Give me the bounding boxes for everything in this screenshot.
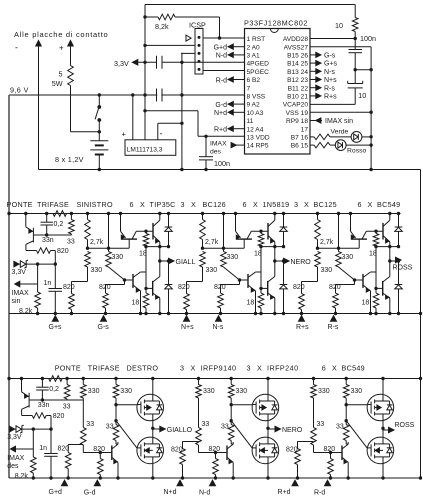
capacitor 100n AVDD (354, 39, 356, 50)
svg-text:Verde: Verde (331, 128, 349, 135)
wire base row (33, 234, 71, 236)
svg-text:5W: 5W (52, 79, 63, 88)
svg-text:820: 820 (171, 447, 183, 454)
svg-text:3: 3 (181, 200, 185, 209)
wire ICSP pin1 row (203, 37, 245, 39)
svg-text:GIALL: GIALL (176, 259, 196, 266)
resistor 820 high input group G destro (67, 445, 69, 453)
wire driver base row (318, 247, 360, 249)
MOSFET low side (152, 428, 154, 437)
svg-text:820: 820 (178, 284, 190, 291)
svg-text:R+s: R+s (296, 324, 309, 331)
transistor pre-driver Q1 (235, 214, 237, 232)
resistor 8,2k (145, 16, 158, 18)
svg-text:IMAX sin: IMAX sin (325, 118, 353, 125)
svg-text:X: X (191, 364, 196, 373)
MOSFET (252, 394, 279, 421)
diode low 1N5819 (283, 261, 285, 285)
svg-text:VSS 19: VSS 19 (286, 110, 309, 117)
transistor pre-driver Q1 (120, 214, 122, 232)
svg-text:B15 26: B15 26 (287, 53, 308, 60)
body diode (153, 443, 160, 445)
arrow input G+d (62, 480, 68, 486)
transistor driver low Q3 (355, 279, 364, 281)
svg-text:330: 330 (120, 388, 132, 395)
svg-text:IMAX: IMAX (12, 290, 29, 297)
left border bus wire (8, 95, 10, 478)
svg-text:NERO: NERO (282, 427, 303, 434)
svg-text:+: + (122, 130, 127, 139)
wire to high gate (346, 404, 367, 406)
regulator output lead (157, 123, 159, 140)
resistor 18 lower (143, 293, 149, 308)
resistor 820 low-side input (239, 280, 241, 285)
wire driver base row (314, 452, 343, 454)
svg-text:N-s: N-s (324, 69, 335, 76)
wire 18/diode row (261, 246, 284, 248)
resistor 2,7k group GIALL (87, 214, 89, 220)
svg-text:Rosso: Rosso (347, 148, 366, 155)
svg-text:AVDD28: AVDD28 (283, 36, 308, 43)
transistor output high TIP35C (382, 223, 384, 240)
svg-text:0,2: 0,2 (54, 221, 64, 228)
svg-text:NERO: NERO (291, 259, 312, 266)
LED Rosso with resistor on pin15 (310, 144, 314, 146)
svg-text:2,7k: 2,7k (320, 239, 334, 246)
svg-text:330: 330 (318, 388, 330, 395)
svg-text:6: 6 (130, 200, 134, 209)
resistor 820 high input group N destro (182, 442, 184, 449)
svg-text:TRIFASE: TRIFASE (88, 364, 120, 373)
body diode (268, 400, 275, 402)
diode low 1N5819 (398, 261, 400, 285)
arrow input G-s (101, 316, 107, 322)
wire base row (29, 399, 83, 401)
resistor 330 left group ROSS (313, 379, 315, 385)
resistor 820 low-side input (124, 280, 126, 285)
wire bottom return rail of top section (39, 169, 421, 171)
svg-text:100n: 100n (360, 34, 376, 43)
svg-text:820: 820 (286, 447, 298, 454)
svg-text:N+d: N+d (214, 110, 227, 117)
transistor driver BC549 (111, 446, 113, 461)
right border bus wire (420, 170, 422, 479)
svg-text:3,3V: 3,3V (12, 269, 27, 276)
svg-text:330: 330 (206, 267, 218, 274)
arrow input N+s (184, 316, 190, 322)
resistor 330 left group NERO (198, 379, 200, 385)
svg-text:1n: 1n (39, 445, 47, 452)
wire driver base row (203, 247, 245, 249)
svg-text:33n: 33n (42, 237, 54, 244)
resistor 820 at limiter collector (26, 250, 37, 252)
svg-text:10: 10 (335, 21, 343, 30)
resistor 820 high input group R destro (297, 442, 299, 449)
svg-text:3: 3 (247, 364, 251, 373)
svg-text:330: 330 (203, 388, 215, 395)
left input arrows to MCU (233, 46, 244, 48)
wire 8,2k to pin 1 (219, 17, 221, 38)
svg-text:3,3V: 3,3V (7, 434, 22, 441)
resistor 0,2 in rail (49, 376, 63, 382)
arrow output NERO (268, 428, 276, 430)
svg-text:8 x 1,2V: 8 x 1,2V (55, 155, 84, 164)
capacitor 10 at VCAP (354, 70, 356, 84)
svg-text:820: 820 (53, 413, 65, 420)
svg-text:3: 3 (294, 200, 298, 209)
svg-text:IMAX: IMAX (7, 455, 24, 462)
arrow output NERO (284, 258, 290, 264)
resistor 18 upper (144, 230, 147, 233)
svg-text:7: 7 (247, 85, 251, 92)
svg-text:R-d: R-d (216, 77, 227, 84)
svg-text:N-d: N-d (216, 53, 227, 60)
resistor 33 (66, 379, 68, 385)
svg-text:BC125: BC125 (314, 200, 337, 209)
svg-text:9,6 V: 9,6 V (10, 86, 29, 95)
svg-text:33: 33 (221, 424, 229, 431)
svg-text:4PGED: 4PGED (247, 61, 270, 68)
wire AVDD pin28 (310, 38, 355, 40)
wire Q4 base bus (375, 247, 377, 289)
svg-text:AVSS27: AVSS27 (284, 44, 309, 51)
svg-text:33: 33 (67, 239, 75, 246)
svg-text:G+d: G+d (214, 45, 228, 52)
svg-text:33: 33 (63, 404, 71, 411)
svg-text:R-s: R-s (324, 85, 335, 92)
wire top net from 8,2k to 10-ohm resistor (145, 4, 355, 6)
arrow input N-s (216, 316, 222, 322)
arrow output ROSS (383, 429, 389, 431)
transistor driver BC549 (226, 446, 228, 461)
resistor 18 upper (259, 230, 262, 233)
capacitor on 9,6V row (156, 89, 158, 102)
wire 3,3V supply to VDD (145, 110, 198, 112)
wire top rail sinistro (9, 213, 401, 215)
svg-text:G-s: G-s (324, 53, 336, 60)
wire diagonal to low gate (116, 421, 137, 448)
svg-text:G+s: G+s (324, 61, 338, 68)
svg-text:33: 33 (86, 421, 94, 428)
svg-text:P33FJ128MC802: P33FJ128MC802 (244, 19, 308, 28)
svg-text:18: 18 (247, 299, 255, 306)
resistor 10 at AVDD (354, 5, 356, 18)
svg-text:G-d: G-d (84, 490, 96, 497)
resistor 330 upper (200, 252, 206, 268)
svg-text:X: X (257, 364, 262, 373)
svg-text:B13 24: B13 24 (287, 69, 308, 76)
svg-text:330: 330 (227, 254, 239, 261)
svg-text:10: 10 (358, 91, 366, 100)
wire bottom line destro (9, 477, 421, 479)
arrow IMAX des to pin14 (236, 144, 244, 146)
resistor 820 low input (214, 451, 217, 454)
svg-text:33: 33 (202, 421, 210, 428)
svg-text:IRFP9140: IRFP9140 (201, 364, 237, 373)
resistor 33 right and low gate path (345, 405, 347, 421)
wire ICSP pin2 row (145, 44, 195, 46)
resistor 2,7k group NERO (202, 214, 204, 220)
arrow input R-d (325, 480, 331, 486)
svg-text:8,2k: 8,2k (19, 308, 33, 315)
svg-text:G+d: G+d (49, 489, 63, 496)
MOSFET (137, 437, 164, 464)
svg-text:18: 18 (132, 299, 140, 306)
capacitor 33n (41, 379, 43, 388)
svg-text:0,2: 0,2 (49, 386, 59, 393)
svg-text:des: des (210, 149, 222, 156)
svg-text:LM111713,3: LM111713,3 (127, 146, 163, 153)
arrow output GIALL (169, 258, 175, 264)
svg-text:PONTE: PONTE (55, 364, 81, 373)
svg-text:33: 33 (106, 424, 114, 431)
resistor 8,2k (32, 429, 34, 457)
body diode (153, 400, 160, 402)
svg-text:330: 330 (88, 388, 100, 395)
resistor 18 lower (373, 293, 379, 308)
svg-text:B7 16: B7 16 (291, 135, 309, 142)
arrow input N+d (177, 480, 183, 486)
wire 18/diode row (376, 246, 399, 248)
svg-text:820: 820 (214, 284, 226, 291)
resistor 33 (70, 214, 72, 220)
right output arrows from MCU (310, 54, 316, 56)
svg-text:3 A1: 3 A1 (247, 53, 261, 60)
wire VCAP pin20 (310, 103, 355, 105)
svg-text:IRFP240: IRFP240 (267, 364, 299, 373)
svg-text:GIALLO: GIALLO (167, 427, 193, 434)
svg-text:BC549: BC549 (377, 200, 400, 209)
transistor output low TIP35C (146, 287, 153, 289)
svg-text:3,3V: 3,3V (114, 59, 129, 68)
MOSFET (252, 437, 279, 464)
svg-text:330: 330 (351, 388, 363, 395)
regulator LM11173,3 (125, 140, 176, 156)
wire driver base row (199, 452, 228, 454)
wire Q4 base bus (145, 247, 147, 289)
svg-text:330: 330 (321, 267, 333, 274)
svg-text:VCAP20: VCAP20 (283, 102, 309, 109)
wire 9,6V rail (9, 94, 245, 96)
arrow output ROSS (396, 257, 402, 263)
wire to high gate (116, 404, 137, 406)
svg-text:N+d: N+d (164, 489, 177, 496)
svg-text:10 A3: 10 A3 (247, 110, 264, 117)
body diode (383, 400, 390, 402)
resistor 330 lower (338, 214, 340, 252)
resistor 330 upper (85, 252, 91, 268)
svg-text:X: X (253, 200, 258, 209)
resistor 820 low input (99, 451, 102, 454)
zener 3,3V (14, 261, 19, 267)
svg-text:2 A0: 2 A0 (247, 44, 261, 51)
svg-text:820: 820 (58, 446, 70, 453)
svg-text:BC549: BC549 (342, 364, 365, 373)
svg-text:5: 5 (59, 70, 63, 79)
svg-text:N+s: N+s (181, 324, 194, 331)
MOSFET low side (267, 428, 269, 437)
svg-text:820: 820 (57, 248, 69, 255)
resistor 8,2k (37, 264, 39, 292)
arrow input N-d (210, 480, 216, 486)
regulator input lead (132, 95, 134, 140)
svg-text:Alle placche di contatto: Alle placche di contatto (14, 30, 108, 39)
svg-text:6: 6 (243, 200, 247, 209)
svg-text:2,7k: 2,7k (90, 239, 104, 246)
svg-text:8 VSS: 8 VSS (247, 94, 266, 101)
svg-text:12 A4: 12 A4 (247, 126, 264, 133)
svg-text:TRIFASE: TRIFASE (37, 200, 69, 209)
svg-text:-: - (160, 129, 163, 139)
arrow IMAX sin from pin18 (310, 120, 322, 122)
transistor current-limit PNP (25, 214, 27, 227)
MOSFET (367, 394, 394, 421)
resistor 330 left group GIALLO (82, 379, 84, 385)
wire ICSP pin5 row (203, 70, 245, 72)
diode high 1N5819 (168, 214, 170, 228)
arrow IMAX output (15, 281, 20, 287)
wire bus x=370.6 (370, 47, 372, 170)
svg-text:PONTE: PONTE (7, 200, 33, 209)
svg-text:ROSS: ROSS (395, 422, 415, 429)
LED Verde with resistor on pin16 (310, 136, 314, 138)
svg-text:RP9 18: RP9 18 (286, 118, 308, 125)
svg-text:IMAX: IMAX (210, 141, 227, 148)
wire diagonal to low gate (231, 421, 252, 448)
transistor pre-driver Q1 (350, 214, 352, 232)
MOSFET high side (382, 379, 384, 395)
svg-text:11: 11 (247, 118, 254, 125)
svg-text:33: 33 (317, 421, 325, 428)
wire top rail destro (9, 378, 421, 380)
svg-text:8,2k: 8,2k (155, 22, 169, 31)
svg-text:R-d: R-d (314, 490, 325, 497)
svg-text:DESTRO: DESTRO (127, 364, 159, 373)
svg-text:820: 820 (329, 284, 341, 291)
MOSFET (137, 394, 164, 421)
wire driver base row (88, 247, 130, 249)
capacitor 100n at VDD (205, 136, 207, 156)
wire diagonal to low gate (346, 421, 367, 448)
resistor 5 5W (68, 66, 74, 86)
svg-text:33n: 33n (38, 402, 50, 409)
svg-text:G-s: G-s (98, 324, 110, 331)
resistor 18 upper (374, 230, 377, 233)
arrow 3,3V out (132, 60, 138, 66)
svg-text:3: 3 (180, 364, 184, 373)
transistor output high TIP35C (267, 223, 269, 240)
wire vertical bus x=144.5 (8,2k / ICSP / 3,3V node) (144, 5, 146, 140)
svg-text:N+s: N+s (324, 77, 337, 84)
resistor 820 high-side input (72, 281, 88, 283)
MOSFET high side (152, 379, 154, 395)
svg-text:des: des (7, 463, 19, 470)
svg-text:14 RP5: 14 RP5 (247, 143, 269, 150)
resistor 33 right and low gate path (230, 405, 232, 421)
svg-text:+: + (59, 44, 64, 53)
wire VSS pin19 (310, 111, 371, 113)
svg-text:R+d: R+d (214, 127, 227, 134)
svg-text:B11 22: B11 22 (288, 85, 309, 92)
diode high 1N5819 (283, 214, 285, 228)
svg-text:R-s: R-s (328, 324, 339, 331)
wire output node row (390, 260, 399, 262)
capacitor 1n (54, 264, 56, 288)
svg-text:B6 15: B6 15 (291, 143, 309, 150)
svg-text:ROSS: ROSS (393, 265, 413, 272)
capacitor 100n on 3,3V row (138, 61, 157, 63)
svg-text:2,7k: 2,7k (205, 239, 219, 246)
diode low 1N5819 (168, 261, 170, 285)
wire to high gate (231, 404, 252, 406)
svg-text:X: X (140, 200, 145, 209)
transistor output high TIP35C (152, 223, 154, 240)
svg-text:820: 820 (63, 284, 75, 291)
MOSFET low side (382, 428, 384, 437)
wire 18/diode row (146, 246, 169, 248)
capacitor 1n (50, 429, 52, 453)
arrow IMAX output (11, 446, 16, 452)
zener 3,3V (10, 426, 15, 432)
wire bottom line sinistro (9, 313, 314, 315)
arrow input G+s (52, 316, 58, 322)
arrow input G-d (94, 480, 100, 486)
svg-text:9 A2: 9 A2 (247, 102, 261, 109)
transistor driver BC549 (341, 446, 343, 461)
svg-text:5PGEC: 5PGEC (247, 69, 270, 76)
resistor 820 low-side input (354, 280, 356, 285)
svg-text:6: 6 (322, 364, 326, 373)
svg-text:330: 330 (91, 267, 103, 274)
arrow output GIALLO (153, 428, 161, 430)
svg-text:N-s: N-s (213, 324, 224, 331)
svg-text:330: 330 (236, 388, 248, 395)
body diode (268, 443, 275, 445)
resistor 330 right (230, 379, 232, 385)
svg-text:G+s: G+s (49, 324, 63, 331)
svg-text:X: X (191, 200, 196, 209)
MOSFET high side (267, 379, 269, 395)
svg-text:13 VDD: 13 VDD (247, 135, 270, 142)
arrow input R+d (292, 480, 298, 486)
svg-text:820: 820 (93, 446, 105, 453)
svg-text:18: 18 (362, 299, 370, 306)
svg-text:820: 820 (99, 284, 111, 291)
svg-text:B14 25: B14 25 (287, 61, 308, 68)
svg-text:17: 17 (301, 126, 309, 133)
resistor 820 low input (329, 451, 332, 454)
transistor driver low Q3 (240, 279, 249, 281)
wire AVSS pin27 (310, 46, 371, 48)
MOSFET (367, 437, 394, 464)
svg-text:6 B2: 6 B2 (247, 77, 261, 84)
svg-text:100n: 100n (214, 159, 230, 168)
wire Q4 base bus (260, 247, 262, 289)
svg-text:X: X (332, 364, 337, 373)
svg-text:B12 23: B12 23 (287, 77, 308, 84)
svg-text:BC126: BC126 (203, 200, 226, 209)
body diode (383, 443, 390, 445)
transistor current-limit PNP (21, 379, 23, 392)
resistor 18 lower (258, 293, 264, 308)
svg-text:N-d: N-d (199, 490, 210, 497)
diode high 1N5819 (398, 214, 400, 228)
resistor 330 right (345, 379, 347, 385)
svg-text:R+s: R+s (324, 94, 337, 101)
arrow input R-s (331, 316, 337, 322)
wire output node row (275, 260, 284, 262)
svg-text:SINISTRO: SINISTRO (77, 200, 113, 209)
